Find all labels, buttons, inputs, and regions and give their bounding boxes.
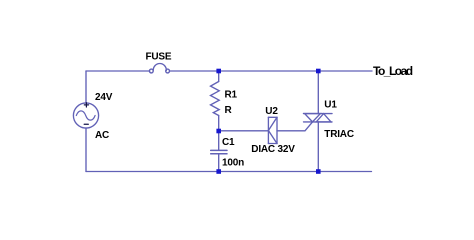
wire top: fuse to node A — [170, 70, 219, 72]
svg-text:To_Load: To_Load — [373, 64, 413, 78]
wire left: top corner down to AC source — [85, 71, 87, 103]
resistor R1 (zigzag) — [211, 82, 220, 116]
svg-text:TRIAC: TRIAC — [324, 129, 354, 140]
node B junction — [316, 69, 321, 74]
wire: resistor to node C — [218, 116, 220, 132]
svg-text:FUSE: FUSE — [146, 51, 172, 62]
capacitor C1 (bottom plate to bottom wire) — [218, 154, 220, 171]
capacitor C1 plates — [211, 150, 227, 153]
svg-text:100n: 100n — [222, 157, 244, 168]
svg-text:AC: AC — [95, 130, 109, 141]
wire: diac to triac gate — [277, 122, 313, 131]
svg-text:U2: U2 — [265, 106, 278, 117]
triac U1 symbol — [304, 114, 333, 122]
svg-text:C1: C1 — [222, 137, 235, 148]
AC source minus mark — [84, 123, 88, 125]
wire bottom — [86, 171, 372, 173]
node C junction — [216, 129, 221, 134]
fuse F (symbol) — [149, 63, 169, 72]
AC source plus mark — [84, 103, 88, 107]
wire: node A down to resistor — [218, 71, 220, 82]
wire: node B down to triac top — [317, 71, 319, 114]
wire left: AC source down to bottom corner — [85, 128, 87, 171]
diac U2 symbol — [268, 117, 277, 143]
svg-text:DIAC 32V: DIAC 32V — [251, 144, 295, 155]
node A junction — [216, 69, 221, 74]
svg-text:R: R — [225, 105, 233, 116]
svg-text:24V: 24V — [95, 92, 113, 103]
svg-text:R1: R1 — [225, 90, 238, 101]
wire top: left corner to fuse — [86, 70, 150, 72]
AC source V1 (circle) — [73, 103, 98, 128]
node E junction (cap bottom) — [216, 169, 221, 174]
wire top: node A to node B — [219, 70, 319, 72]
AC source sine wave — [76, 111, 95, 120]
wire mid: node C to diac — [219, 130, 269, 132]
wire top: node B to To_Load — [318, 70, 372, 72]
svg-text:U1: U1 — [324, 100, 337, 111]
capacitor C1 (wire node C to top plate) — [218, 131, 220, 150]
wire: triac bottom to node D — [317, 122, 319, 172]
node D junction — [316, 169, 321, 174]
